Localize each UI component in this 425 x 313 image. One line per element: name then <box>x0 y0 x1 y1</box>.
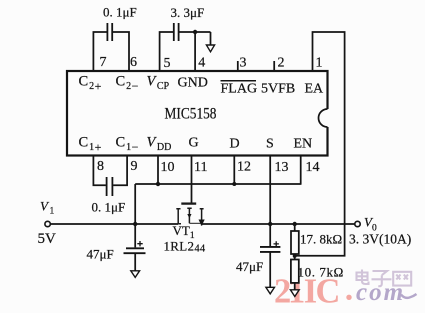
svg-text:14: 14 <box>306 160 320 175</box>
capacitor 3.3uF plates <box>174 23 179 41</box>
svg-text:6: 6 <box>130 55 137 70</box>
svg-text:12: 12 <box>237 160 251 175</box>
svg-text:D: D <box>230 137 240 152</box>
svg-text:3. 3V(10A): 3. 3V(10A) <box>349 232 411 247</box>
svg-text:1: 1 <box>316 56 323 71</box>
ground arrow divider <box>290 290 299 297</box>
terminal V1 input <box>45 221 50 226</box>
svg-text:GND: GND <box>178 76 208 91</box>
notch on right edge <box>326 109 329 127</box>
ground arrow top (3.3uF) <box>206 45 214 52</box>
ground arrow input cap <box>131 271 140 278</box>
transistor Q1 VT1 MOSFET <box>176 204 203 226</box>
wire cap to ground <box>269 252 271 287</box>
svg-text:17. 8kΩ: 17. 8kΩ <box>300 232 342 247</box>
capacitor 47uF output: wire and plates <box>269 224 271 246</box>
svg-text:11: 11 <box>194 160 207 175</box>
svg-text:2: 2 <box>278 56 285 71</box>
wire bus VDD-D-EN <box>135 183 301 185</box>
svg-text:13: 13 <box>275 160 289 175</box>
watermark 21IC.com logo <box>274 270 417 311</box>
capacitor 0.1uF bottom plates <box>107 177 113 196</box>
wire VDD bus down to input node <box>134 184 136 247</box>
node pin4 junction <box>193 30 197 34</box>
svg-text:47μF: 47μF <box>87 247 114 262</box>
svg-text:com: com <box>356 279 405 306</box>
transistor source arrow at rail <box>199 220 205 227</box>
svg-text:G: G <box>189 136 199 151</box>
capacitor 47uF output plus sign <box>274 241 279 246</box>
svg-text:3: 3 <box>240 56 247 71</box>
wire R1 to R2 <box>294 254 296 260</box>
wire to pin4 and gnd stub <box>179 32 210 71</box>
resistor R1 17.8k <box>294 224 296 231</box>
pin2 stub <box>273 61 275 71</box>
wire pin13 down to rail <box>269 156 271 225</box>
node resistor rail junction <box>293 222 297 226</box>
capacitor 47uF input: plates <box>124 248 146 253</box>
svg-text:0. 1μF: 0. 1μF <box>103 5 137 20</box>
node input rail junction <box>133 222 137 226</box>
svg-text:9: 9 <box>131 159 138 174</box>
svg-text:5: 5 <box>164 56 171 71</box>
node pin13 rail junction <box>268 222 272 226</box>
node pin12 junction <box>232 182 236 186</box>
wire pin12 down <box>233 156 235 185</box>
wire pin10 down <box>157 156 159 185</box>
svg-text:FLAG: FLAG <box>221 82 258 97</box>
svg-text:5V: 5V <box>38 231 57 247</box>
wire pin5 up <box>160 32 173 71</box>
capacitor 0.1uF top plates <box>107 23 112 41</box>
svg-text:5VFB: 5VFB <box>261 82 295 97</box>
terminal V0 output <box>355 221 360 226</box>
svg-text:10. 7kΩ: 10. 7kΩ <box>298 265 344 280</box>
svg-text:4: 4 <box>198 56 205 71</box>
wire pin9 down <box>113 156 127 186</box>
svg-text:S: S <box>266 137 274 152</box>
wire output rail <box>202 223 355 225</box>
svg-text:MIC5158: MIC5158 <box>165 105 217 122</box>
resistor R2 10.7k <box>291 260 299 283</box>
ground arrow output cap <box>266 287 275 294</box>
svg-text:EA: EA <box>305 82 325 97</box>
transistor body arrow <box>187 214 191 218</box>
node pin10 junction <box>156 182 160 186</box>
pin3 stub <box>237 61 239 71</box>
svg-text:47μF: 47μF <box>236 259 263 274</box>
wire pin11 gate <box>191 156 193 203</box>
wire pin1 to EA feedback <box>295 32 345 256</box>
node divider tap <box>293 254 297 258</box>
wire input rail <box>50 223 178 225</box>
svg-text:7: 7 <box>100 55 107 70</box>
wire cap to ground <box>134 253 136 270</box>
svg-text:3. 3μF: 3. 3μF <box>171 5 205 20</box>
svg-text:10: 10 <box>161 160 175 175</box>
capacitor 47uF input plus sign <box>137 241 142 246</box>
svg-text:8: 8 <box>97 159 104 174</box>
wire pin7 up <box>93 32 106 71</box>
svg-text:EN: EN <box>294 137 313 152</box>
svg-text:0. 1μF: 0. 1μF <box>92 199 126 214</box>
wire to pin6 <box>113 32 129 71</box>
op-amp U1 MIC5158 box <box>67 71 328 156</box>
wire pin14 down <box>300 156 302 185</box>
wire pin8 down <box>93 156 106 186</box>
wire R2 to ground <box>294 283 296 290</box>
